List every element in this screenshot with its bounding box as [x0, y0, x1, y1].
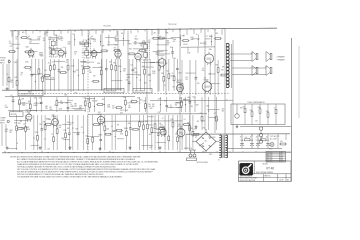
component G11	[155, 52, 160, 56]
svg-text:TP-2 10.7 MC: TP-2 10.7 MC	[168, 24, 178, 26]
component G12	[170, 47, 174, 58]
component A35	[161, 59, 165, 91]
component B20	[92, 115, 94, 150]
component O0	[179, 60, 183, 95]
svg-text:330: 330	[18, 123, 21, 125]
wire mesh G	[31, 49, 170, 56]
component B7	[35, 115, 39, 150]
svg-text:.02: .02	[74, 54, 76, 56]
label part no	[265, 175, 290, 182]
wire top B+ bus	[10, 28, 277, 31]
component T15	[107, 35, 110, 47]
svg-text:.047: .047	[9, 43, 12, 45]
svg-text:0.1: 0.1	[21, 128, 23, 130]
component M5	[34, 97, 38, 112]
component A15	[71, 59, 75, 91]
component B27	[115, 125, 123, 132]
wire mesh O	[185, 73, 219, 83]
component A0	[6, 59, 10, 91]
svg-text:.005: .005	[102, 99, 105, 101]
component T20	[142, 40, 146, 44]
component T10	[72, 34, 75, 46]
svg-text:1500: 1500	[40, 55, 43, 57]
component B37	[156, 115, 161, 150]
control box record	[10, 112, 24, 117]
svg-text:C22: C22	[89, 38, 92, 40]
ground symbol 6	[159, 146, 162, 149]
component M9	[56, 97, 58, 112]
svg-text:T1: T1	[218, 160, 220, 162]
svg-text:330: 330	[190, 128, 193, 130]
svg-text:VT 40: VT 40	[266, 167, 274, 171]
component B25	[111, 115, 114, 150]
component A26	[123, 69, 127, 73]
svg-text:C22: C22	[177, 102, 180, 104]
component A19	[89, 70, 93, 74]
component B18	[81, 115, 84, 150]
svg-text:1500: 1500	[58, 125, 61, 127]
svg-text:.047: .047	[166, 71, 169, 73]
component A22	[105, 59, 108, 91]
component G7	[100, 45, 108, 52]
wire lower bus D	[100, 120, 182, 122]
svg-text:.01: .01	[164, 85, 166, 87]
wire top-bus drops	[12, 29, 222, 37]
svg-text:1500: 1500	[49, 109, 52, 111]
component B46	[190, 115, 194, 150]
wire vertical run 11	[232, 40, 234, 152]
wire speaker leads	[230, 52, 266, 75]
component O5	[216, 60, 220, 95]
svg-text:.01: .01	[274, 107, 276, 109]
component M32	[170, 105, 174, 109]
svg-text:TONE CONTROL: TONE CONTROL	[106, 91, 117, 93]
svg-text:− SPEAKER: − SPEAKER	[276, 58, 286, 61]
svg-text:3131: 3131	[280, 157, 283, 159]
component B32	[139, 115, 141, 150]
transformer IF can Z1	[50, 39, 58, 57]
component O1	[186, 77, 189, 81]
wire vertical run 17	[204, 29, 206, 130]
svg-text:1500: 1500	[187, 97, 190, 99]
svg-text:1500: 1500	[39, 124, 42, 126]
tube V1 6BA6	[27, 36, 34, 58]
component P2	[214, 97, 218, 130]
wire channel-separator dashed	[18, 92, 230, 94]
wire vertical run 6	[165, 29, 167, 95]
component A34	[156, 59, 160, 91]
component A9	[43, 70, 51, 77]
component G4	[63, 47, 67, 58]
svg-text:330: 330	[44, 70, 47, 72]
component B41	[170, 115, 174, 150]
wire mesh M	[18, 99, 190, 111]
wire right inner vertical	[298, 46, 300, 118]
svg-text:0.1: 0.1	[63, 47, 65, 49]
component G2	[39, 53, 44, 57]
svg-text:.005: .005	[74, 106, 77, 108]
svg-text:A.C. ONLY: A.C. ONLY	[270, 138, 278, 141]
table title block frame	[239, 161, 292, 182]
wire vertical run 1	[17, 31, 19, 90]
wire vertical run 12	[12, 31, 14, 88]
svg-text:0.1: 0.1	[20, 74, 22, 76]
transformer IF can Z2	[83, 40, 91, 58]
svg-text:.01: .01	[170, 105, 172, 107]
svg-text:R17: R17	[49, 107, 52, 109]
speaker LS3	[252, 66, 258, 76]
svg-text:C22: C22	[130, 64, 133, 66]
label drawing title	[256, 171, 274, 174]
component O2	[195, 60, 198, 95]
svg-text:LOUDNESS CONTROL: LOUDNESS CONTROL	[20, 93, 35, 95]
ground symbol 5	[6, 146, 9, 149]
svg-text:C40: C40	[255, 121, 258, 123]
component M17	[92, 97, 95, 112]
svg-text:C22: C22	[214, 113, 217, 115]
tube V12 6EU7	[97, 112, 104, 126]
component B0	[5, 129, 9, 133]
svg-text:R31: R31	[144, 83, 147, 85]
svg-text:.01: .01	[162, 118, 164, 120]
svg-text:.005: .005	[197, 83, 200, 85]
svg-text:SELECTOR SW: SELECTOR SW	[135, 91, 146, 93]
component M25	[130, 101, 138, 103]
component M34	[179, 97, 183, 112]
wire vertical run 2	[44, 31, 46, 95]
svg-text:CR1: CR1	[202, 128, 205, 130]
svg-text:330: 330	[221, 111, 224, 113]
component A30	[138, 59, 142, 91]
svg-text:R31: R31	[129, 48, 132, 50]
component T32	[214, 33, 222, 40]
component G8	[113, 45, 121, 52]
svg-text:0.1: 0.1	[5, 105, 7, 107]
svg-text:TONE COMPENSATION: TONE COMPENSATION	[247, 101, 265, 104]
svg-text:RECORD: RECORD	[11, 114, 18, 116]
component M0	[5, 105, 9, 109]
svg-text:C22: C22	[179, 80, 182, 82]
resistor R72	[279, 141, 287, 145]
label test point TP1	[103, 26, 112, 28]
svg-text:R17: R17	[140, 45, 143, 47]
wire junction dots	[9, 28, 283, 153]
capacitor filter bank C50	[240, 134, 270, 149]
wire ground-bus stubs	[5, 151, 203, 153]
svg-text:.005: .005	[81, 42, 84, 44]
component B42	[175, 115, 179, 150]
svg-text:330: 330	[175, 105, 178, 107]
component A37	[171, 59, 175, 91]
wire vertical run 8	[189, 60, 191, 134]
component T13	[93, 39, 97, 43]
component B30	[128, 115, 132, 150]
wire mesh P	[207, 110, 219, 118]
component M37	[192, 97, 196, 112]
component T16	[115, 38, 120, 42]
component A2	[14, 59, 18, 91]
svg-text:R31: R31	[76, 70, 79, 72]
svg-text:330: 330	[152, 106, 155, 108]
component B3	[16, 123, 24, 130]
component T5	[43, 38, 46, 42]
component B1	[9, 130, 13, 134]
wire vertical run 9	[214, 29, 216, 133]
wire output stage link	[181, 47, 215, 53]
component M3	[22, 103, 26, 107]
svg-text:0.1: 0.1	[6, 74, 8, 76]
svg-text:R17: R17	[148, 74, 151, 76]
component B47	[192, 129, 200, 136]
speaker LS4	[266, 66, 272, 76]
component B6	[33, 115, 36, 150]
svg-text:C64 .02: C64 .02	[183, 44, 188, 46]
svg-text:1500: 1500	[170, 119, 173, 121]
svg-text:0.1: 0.1	[115, 38, 117, 40]
svg-text:.01: .01	[159, 123, 161, 125]
component A10	[48, 59, 52, 91]
svg-text:330: 330	[243, 106, 245, 108]
label pilot light	[120, 110, 128, 114]
svg-text:+ SPEAKER: + SPEAKER	[276, 56, 286, 59]
svg-text:.01: .01	[16, 143, 18, 145]
component M23	[123, 97, 127, 112]
component B9	[42, 115, 46, 150]
svg-text:15078: 15078	[279, 179, 284, 181]
svg-text:R31: R31	[221, 69, 224, 71]
component A36	[166, 59, 170, 91]
component A23	[109, 59, 113, 91]
component A24	[113, 59, 117, 91]
component O4	[209, 60, 212, 95]
svg-text:1500: 1500	[139, 100, 142, 102]
svg-text:.01: .01	[171, 73, 173, 75]
label test point TP2	[168, 24, 178, 26]
component B12	[56, 115, 58, 150]
wire vertical run 3	[87, 30, 89, 152]
component A8	[40, 59, 44, 91]
component A21	[100, 59, 102, 91]
label notes block	[10, 155, 158, 178]
component G3	[49, 47, 53, 58]
component G6	[90, 51, 94, 55]
tube V4 6AU6	[114, 36, 121, 59]
wire heater bus	[8, 109, 86, 111]
component B31	[132, 128, 140, 130]
svg-text:.01: .01	[127, 42, 129, 44]
svg-text:R31: R31	[170, 47, 173, 49]
component B38	[158, 123, 166, 130]
component M20	[107, 105, 111, 109]
component A3	[20, 72, 24, 76]
svg-text:C50B: C50B	[250, 140, 253, 142]
tube V5 6AL5	[134, 36, 141, 62]
component A38	[176, 59, 179, 91]
svg-text:.01: .01	[61, 40, 63, 42]
svg-text:C22: C22	[72, 34, 75, 36]
component B4	[23, 115, 27, 150]
component A7	[38, 59, 40, 91]
component B13	[58, 125, 61, 129]
ground symbol 4	[129, 146, 132, 149]
component T19	[134, 41, 138, 45]
component P3	[221, 109, 224, 113]
resistor R70	[245, 137, 251, 141]
svg-text:0.1: 0.1	[83, 98, 85, 100]
component A27	[127, 59, 131, 91]
svg-text:C22: C22	[93, 41, 96, 43]
svg-text:.005: .005	[65, 102, 68, 104]
wire mid bus B	[5, 96, 135, 98]
component T3	[29, 40, 32, 44]
component T14	[99, 35, 102, 47]
component M35	[183, 97, 187, 112]
component B11	[51, 115, 55, 150]
ground symbol 7	[236, 125, 239, 128]
svg-text:REV LTR B: REV LTR B	[267, 154, 273, 156]
component A14	[65, 59, 69, 91]
svg-text:.02: .02	[32, 56, 34, 58]
component A6	[34, 59, 37, 91]
component G0	[8, 46, 16, 53]
svg-text:.01: .01	[15, 39, 17, 41]
component M21	[112, 105, 115, 109]
component B45	[187, 115, 191, 150]
label AC rating	[270, 136, 280, 140]
component B14	[63, 115, 67, 150]
component B2	[14, 115, 18, 150]
component B34	[145, 115, 149, 150]
tube V2 6BE6	[57, 36, 64, 58]
svg-text:MODEL: MODEL	[263, 164, 268, 166]
svg-text:R31: R31	[216, 64, 219, 66]
tube V7 6V6GT	[204, 36, 213, 65]
svg-text:R61: R61	[240, 108, 243, 110]
component B21	[92, 124, 100, 126]
svg-text:R31: R31	[156, 62, 159, 64]
label model	[263, 164, 275, 171]
svg-text:SR-1: SR-1	[209, 154, 212, 156]
svg-text:.005: .005	[32, 74, 35, 76]
svg-text:1500: 1500	[51, 77, 54, 79]
component B15	[67, 115, 71, 150]
component T2	[20, 32, 28, 39]
label value annotations	[12, 32, 228, 151]
component T22	[152, 33, 160, 40]
svg-text:.01: .01	[23, 123, 25, 125]
svg-text:3117: 3117	[280, 154, 283, 156]
svg-text:.02: .02	[81, 127, 83, 129]
component T12	[87, 35, 90, 47]
wire PS lower line	[226, 147, 282, 149]
svg-text:.01: .01	[202, 68, 204, 70]
component M31	[164, 97, 168, 112]
svg-text:0.1: 0.1	[184, 119, 186, 121]
svg-text:REV LTR D: REV LTR D	[267, 157, 273, 159]
transformer T1 power	[218, 135, 228, 162]
component M16	[87, 97, 91, 112]
tube V10 12AX7	[25, 110, 32, 122]
wire mesh B	[8, 117, 166, 149]
svg-text:.047: .047	[95, 100, 98, 102]
svg-text:.01: .01	[128, 105, 130, 107]
component B29	[124, 115, 129, 150]
component B5	[27, 127, 31, 131]
svg-text:SW1 ON VOLUME: SW1 ON VOLUME	[197, 162, 208, 164]
component G1	[24, 46, 32, 53]
component T24	[166, 41, 170, 45]
component M4	[28, 97, 32, 112]
svg-text:.047: .047	[148, 42, 151, 44]
component M26	[137, 97, 140, 112]
svg-text:.01: .01	[188, 128, 190, 130]
component T6	[48, 37, 52, 41]
wire vertical run 5	[146, 30, 148, 114]
component B17	[75, 115, 79, 150]
svg-text:.01: .01	[52, 62, 54, 64]
component B39	[162, 115, 166, 150]
component M7	[45, 106, 49, 110]
component A29	[134, 59, 138, 91]
component T18	[127, 42, 132, 46]
svg-text:PILOT LIGHT: PILOT LIGHT	[120, 110, 128, 112]
component B22	[98, 115, 103, 150]
svg-text:.005: .005	[10, 80, 13, 82]
wire vertical run 15	[157, 30, 159, 92]
component T23	[158, 37, 166, 39]
component M36	[187, 97, 191, 112]
resistor R71	[261, 137, 267, 141]
component M10	[60, 101, 64, 105]
component B28	[120, 131, 124, 135]
component B40	[168, 115, 170, 150]
component B35	[149, 115, 153, 150]
component A11	[52, 59, 56, 91]
component M13	[74, 104, 78, 108]
svg-text:.005: .005	[199, 113, 202, 115]
component P1	[206, 97, 209, 130]
component A32	[147, 59, 150, 91]
component T30	[204, 42, 207, 46]
component A4	[24, 62, 32, 69]
subcircuit bias network box	[231, 101, 285, 125]
component A16	[76, 59, 79, 91]
label phono input	[0, 58, 10, 65]
wire mesh A	[30, 61, 160, 80]
component A33	[152, 71, 156, 75]
wire right-area line	[240, 125, 291, 127]
svg-text:INTERLOCK: INTERLOCK	[184, 148, 193, 150]
tube V11 12AX7	[51, 114, 58, 127]
svg-text:PILOT: PILOT	[269, 149, 273, 151]
svg-text:.005: .005	[175, 134, 178, 136]
component A17	[81, 59, 85, 91]
ground symbol 1	[6, 87, 9, 90]
tube V8 12AX7	[176, 80, 183, 93]
component T11	[79, 42, 83, 46]
wire bottom ground bus	[2, 151, 291, 154]
label company	[240, 175, 257, 182]
ground symbol 9	[195, 125, 198, 128]
component M6	[39, 97, 43, 112]
svg-text:R31: R31	[137, 97, 140, 99]
svg-text:1500: 1500	[190, 37, 193, 39]
tube V3 6BA6	[90, 36, 97, 58]
component M18	[96, 104, 104, 106]
component T1	[15, 37, 19, 41]
svg-text:R31: R31	[113, 62, 116, 64]
connector AC interlock P1	[184, 143, 208, 164]
